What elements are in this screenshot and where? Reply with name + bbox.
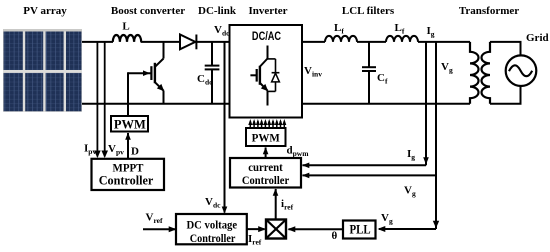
wire: diode to inverter (top rail) — [196, 41, 229, 43]
svg-text:Vdc: Vdc — [205, 196, 221, 210]
wire: secondary to grid source (top) — [490, 42, 521, 56]
wire: inverter to transformer (bottom rail) — [302, 103, 470, 105]
inductor Lf2 — [386, 22, 418, 42]
diode D1 (boost) — [180, 35, 196, 50]
svg-text:iref: iref — [281, 198, 294, 212]
svg-text:Ig: Ig — [427, 25, 435, 39]
PWM block (boost) — [111, 116, 148, 132]
wire: PV to inverter (bottom rail) — [82, 103, 230, 105]
svg-text:D: D — [131, 146, 139, 158]
svg-text:Cf: Cf — [377, 72, 388, 86]
diode D2 (inverter freewheel) — [268, 59, 280, 92]
wire: duty cycle D from MPPT to PWM — [125, 133, 131, 159]
svg-text:θ: θ — [332, 230, 338, 242]
gating arrows inverter — [248, 119, 286, 128]
svg-text:Boost converter: Boost converter — [111, 5, 185, 17]
svg-text:Controller: Controller — [190, 232, 236, 245]
wire: Ipv sense to MPPT — [94, 42, 101, 158]
svg-text:L: L — [122, 21, 129, 33]
svg-text:Inverter: Inverter — [248, 5, 287, 17]
wire: gate drive from PWM to Q1 gate — [128, 70, 151, 116]
svg-text:PLL: PLL — [349, 223, 370, 237]
svg-text:DC-link: DC-link — [198, 5, 237, 17]
wire: inductor to diode (top rail) — [141, 41, 181, 43]
svg-text:Cdc: Cdc — [197, 73, 213, 87]
wire: PV to boost inductor (top rail) — [82, 41, 113, 43]
svg-text:Grid: Grid — [526, 32, 549, 44]
svg-text:Controller: Controller — [242, 174, 289, 187]
PWM block (inverter) — [246, 128, 286, 146]
inductor Lf1 — [325, 22, 357, 42]
wire: dpwm from current controller to PWM — [263, 147, 269, 158]
multiplier X — [266, 220, 286, 239]
svg-text:Vinv: Vinv — [304, 65, 322, 79]
DC voltage controller block — [176, 214, 247, 245]
wire: Vdc sense tap down to DC voltage controller — [222, 42, 228, 214]
svg-text:PV array: PV array — [23, 5, 67, 17]
current controller block — [230, 158, 301, 188]
svg-text:PWM: PWM — [114, 117, 146, 131]
wire: Iref from DC voltage controller to multiplier — [247, 226, 266, 232]
wire: secondary to grid source (bottom) — [490, 86, 521, 104]
svg-text:Vpv: Vpv — [108, 143, 124, 157]
wire: Vg sense line down to PLL — [433, 42, 439, 229]
wire: inverter to first filter inductor (top rail) — [302, 41, 325, 43]
wire: Vg into PLL — [378, 226, 437, 232]
transformer T1 primary winding — [470, 42, 479, 104]
svg-text:Vg: Vg — [404, 185, 416, 199]
wire: Lf2 to transformer (top rail) — [418, 41, 470, 43]
wire: Vref into DC voltage controller — [143, 226, 177, 232]
wire: Ig sense line down to current controller — [302, 42, 429, 168]
svg-text:LCL filters: LCL filters — [342, 5, 395, 17]
svg-text:Iref: Iref — [248, 233, 262, 247]
svg-text:dpwm: dpwm — [287, 145, 310, 159]
capacitor Cdc — [197, 42, 219, 104]
svg-text:Ipv: Ipv — [84, 143, 96, 157]
svg-text:Lf: Lf — [334, 22, 344, 36]
svg-text:Vg: Vg — [381, 212, 393, 226]
svg-text:Vg: Vg — [441, 61, 453, 75]
svg-text:Ig: Ig — [407, 148, 415, 162]
capacitor Cf — [362, 42, 388, 104]
wire: Vpv sense to MPPT — [101, 42, 108, 158]
svg-text:Transformer: Transformer — [459, 5, 519, 17]
MPPT controller block — [92, 159, 165, 190]
wire: iref from multiplier to current controller — [273, 189, 279, 220]
svg-text:PWM: PWM — [252, 132, 280, 144]
svg-text:DC/AC: DC/AC — [252, 30, 281, 43]
op-amp U1: inverter box DC/AC — [230, 25, 303, 118]
wire: Vg feedback into current controller — [302, 173, 436, 179]
svg-text:DC voltage: DC voltage — [186, 219, 237, 232]
svg-text:Lf: Lf — [395, 22, 405, 36]
transistor Q2 (inverter IGBT) — [250, 46, 268, 106]
svg-text:Controller: Controller — [99, 173, 154, 187]
transistor Q1 (boost IGBT) — [151, 41, 164, 104]
svg-text:Vref: Vref — [146, 211, 163, 225]
PLL block — [343, 221, 376, 239]
svg-text:Vdc: Vdc — [214, 24, 230, 38]
grid AC source — [506, 55, 537, 86]
inductor L (boost) — [113, 21, 141, 42]
svg-text:current: current — [248, 161, 283, 174]
PV array panel image — [3, 29, 82, 112]
wire: theta from PLL to multiplier — [288, 226, 344, 232]
transformer T1 secondary winding — [482, 42, 491, 104]
wire: Lf1 to Lf2 (top rail) — [357, 41, 386, 43]
